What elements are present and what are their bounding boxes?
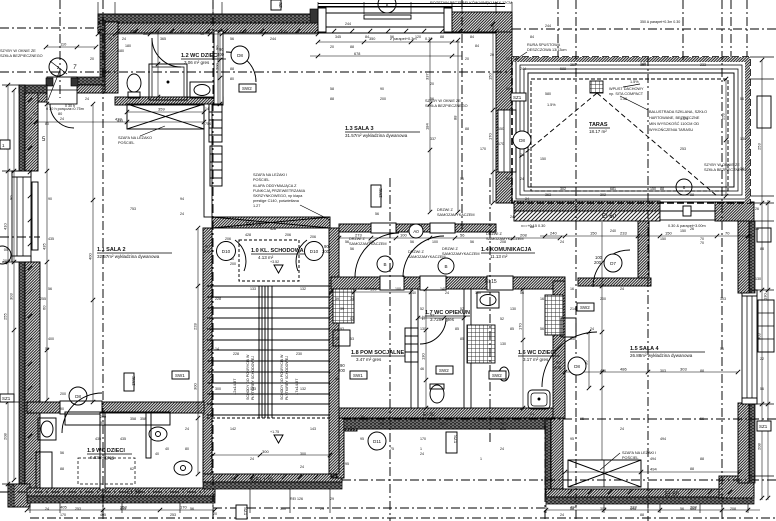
svg-text:SZYBY W OKNIE ZE: SZYBY W OKNIE ZE [425, 99, 461, 103]
svg-text:REI 20: REI 20 [246, 222, 262, 228]
svg-text:B: B [444, 264, 447, 269]
svg-text:SW2: SW2 [242, 86, 252, 91]
svg-text:56: 56 [45, 347, 49, 351]
wardrobe stair-top crossed [212, 217, 330, 228]
bath1.2 shower [149, 64, 187, 100]
svg-text:358: 358 [140, 417, 146, 421]
svg-text:300: 300 [300, 452, 306, 456]
svg-text:31.57m² wykładzina dywanowa: 31.57m² wykładzina dywanowa [345, 133, 408, 138]
door arc stair D10 right [296, 240, 307, 271]
svg-text:SZ: SZ [278, 2, 283, 8]
stairs landing dashed [239, 240, 299, 281]
svg-text:132: 132 [300, 387, 306, 391]
svg-text:94: 94 [180, 197, 184, 201]
svg-text:POŚCIEL: POŚCIEL [253, 177, 269, 182]
svg-text:88: 88 [640, 513, 644, 517]
svg-text:26: 26 [755, 207, 759, 211]
svg-text:88: 88 [700, 369, 704, 373]
terrace drain [590, 81, 603, 93]
top structure lines above window [318, 4, 505, 7]
wall bottom-left corner step [8, 484, 30, 507]
svg-text:D10: D10 [310, 249, 319, 254]
svg-text:678: 678 [354, 52, 360, 56]
svg-text:130: 130 [740, 137, 746, 141]
svg-text:REI 120: REI 120 [251, 478, 273, 484]
svg-text:88: 88 [440, 35, 444, 39]
svg-text:24: 24 [420, 452, 424, 456]
corridor door opening A [371, 223, 396, 233]
svg-text:253: 253 [170, 513, 176, 517]
svg-text:494: 494 [650, 457, 656, 461]
wall sala2 / sala3 divider [204, 104, 212, 217]
svg-text:56: 56 [375, 212, 379, 216]
svg-text:SZAFA NA LEŻAKO: SZAFA NA LEŻAKO [118, 135, 152, 140]
svg-text:1: 1 [420, 447, 422, 451]
svg-text:24: 24 [530, 412, 534, 416]
svg-text:200: 200 [230, 262, 236, 266]
svg-text:303: 303 [720, 297, 726, 301]
svg-text:np. SITA COMPACT: np. SITA COMPACT [609, 92, 644, 96]
svg-text:180: 180 [118, 49, 124, 53]
svg-text:200: 200 [203, 249, 211, 254]
svg-text:20: 20 [90, 57, 94, 61]
window west [12, 171, 31, 262]
svg-text:20: 20 [506, 57, 510, 61]
terrace floor dashed boundary [531, 79, 728, 191]
svg-text:754: 754 [205, 122, 211, 126]
svg-text:D8: D8 [519, 138, 525, 143]
svg-text:SZAFA NA LEŻAKI I: SZAFA NA LEŻAKI I [253, 172, 287, 177]
svg-text:D8: D8 [574, 364, 580, 369]
svg-text:SAMOZAMYKACZEM: SAMOZAMYKACZEM [486, 237, 524, 241]
svg-text:93: 93 [350, 317, 354, 321]
svg-text:FUNKCJĄ PRZEWIETRZANIA: FUNKCJĄ PRZEWIETRZANIA [253, 189, 306, 193]
svg-text:484: 484 [690, 507, 696, 511]
svg-text:BALUSTRADA SZKLANA, SZKŁO: BALUSTRADA SZKLANA, SZKŁO [649, 110, 707, 114]
svg-text:56: 56 [700, 417, 704, 421]
svg-text:24: 24 [180, 212, 184, 216]
svg-text:350: 350 [570, 63, 576, 67]
svg-text:140: 140 [410, 291, 416, 295]
svg-text:26.88m² wykładzina dywanowa: 26.88m² wykładzina dywanowa [630, 353, 693, 358]
svg-text:3.17 m² gres: 3.17 m² gres [523, 357, 549, 362]
bath1.2 sink [190, 82, 214, 98]
svg-text:200: 200 [600, 297, 606, 301]
svg-text:SW2: SW2 [439, 368, 449, 373]
svg-text:400: 400 [48, 337, 54, 341]
door arc corridor B [403, 236, 444, 277]
svg-text:180: 180 [125, 44, 131, 48]
svg-text:SKRZYNKOWEGO, np klapa: SKRZYNKOWEGO, np klapa [253, 194, 303, 198]
svg-text:88: 88 [60, 467, 64, 471]
svg-text:24: 24 [620, 287, 624, 291]
svg-text:SZAFA NA LEŻAKI I: SZAFA NA LEŻAKI I [622, 450, 656, 455]
svg-text:D7: D7 [610, 261, 616, 266]
svg-text:85: 85 [510, 327, 514, 331]
svg-text:6.83m² gres: 6.83m² gres [90, 455, 115, 460]
svg-text:84: 84 [470, 35, 474, 39]
svg-text:130: 130 [370, 287, 377, 292]
slope arrow 1 [623, 84, 640, 87]
svg-text:34: 34 [335, 337, 339, 341]
svg-text:1.1 SALA 2: 1.1 SALA 2 [97, 247, 126, 253]
svg-text:200: 200 [594, 260, 602, 265]
svg-text:184: 184 [425, 123, 430, 130]
svg-text:88: 88 [465, 127, 469, 131]
door arc entry [50, 104, 74, 128]
svg-text:88: 88 [700, 457, 704, 461]
svg-text:170: 170 [518, 323, 523, 330]
svg-text:88: 88 [350, 45, 354, 49]
svg-text:20: 20 [33, 112, 37, 116]
wall entry horizontal right of door [77, 77, 105, 85]
svg-text:3.72m² gres: 3.72m² gres [430, 317, 455, 322]
svg-text:4.13 m²: 4.13 m² [258, 255, 274, 260]
svg-text:350: 350 [369, 37, 375, 41]
svg-text:200: 200 [60, 392, 66, 396]
stairs center divider [259, 286, 272, 418]
door arc wc opiekun [420, 318, 446, 344]
svg-text:DRZWI Z: DRZWI Z [442, 247, 458, 251]
svg-text:x==+0.15 0.30: x==+0.15 0.30 [521, 224, 545, 228]
svg-text:24: 24 [108, 37, 112, 41]
svg-text:1.5%: 1.5% [547, 103, 556, 107]
svg-text:24: 24 [360, 415, 364, 419]
svg-text:244: 244 [520, 67, 526, 71]
svg-text:24: 24 [185, 427, 189, 431]
svg-text:24: 24 [525, 197, 529, 201]
dimension chains [96, 29, 320, 37]
svg-text:95: 95 [345, 462, 349, 466]
svg-text:206: 206 [285, 233, 291, 237]
stairs flight text right [280, 354, 299, 400]
svg-text:PŁYTKIRBY SCHODOWEJ: PŁYTKIRBY SCHODOWEJ [251, 356, 255, 400]
svg-text:56: 56 [760, 387, 764, 391]
svg-text:150: 150 [650, 187, 656, 191]
svg-text:433: 433 [117, 119, 123, 123]
svg-text:WPUST DACHOWY: WPUST DACHOWY [609, 87, 644, 91]
svg-text:56: 56 [350, 247, 354, 251]
svg-text:88: 88 [453, 115, 458, 120]
svg-text:208: 208 [3, 433, 8, 440]
wall corridor south [331, 277, 565, 289]
svg-text:DRZWI Z: DRZWI Z [486, 232, 502, 236]
wc1.9 partition2 [146, 413, 151, 458]
svg-text:100: 100 [432, 240, 438, 244]
svg-text:DRZWI Z: DRZWI Z [437, 208, 453, 212]
right edge small boxes [757, 96, 771, 242]
svg-text:200: 200 [322, 249, 330, 254]
svg-text:24: 24 [60, 117, 64, 121]
svg-text:170: 170 [488, 133, 493, 140]
svg-text:435: 435 [48, 237, 54, 241]
svg-text:70: 70 [700, 241, 704, 245]
svg-text:410: 410 [3, 223, 8, 230]
svg-text:303: 303 [757, 333, 762, 340]
terrace door opening [660, 202, 717, 220]
svg-text:240: 240 [610, 229, 616, 233]
svg-text:56: 56 [755, 227, 759, 231]
svg-text:95: 95 [580, 417, 584, 421]
svg-text:428: 428 [270, 227, 276, 231]
svg-text:681: 681 [610, 187, 616, 191]
svg-text:SCHODY DO POKRYCIA W: SCHODY DO POKRYCIA W [280, 354, 284, 400]
door arc bath1.2 to sala3 (D8) [226, 52, 256, 82]
wall corridor north [339, 224, 496, 232]
wall stairwell top REI20 [212, 217, 330, 228]
svg-text:D8: D8 [237, 53, 243, 58]
svg-text:3.47 m² gres: 3.47 m² gres [356, 357, 382, 362]
wall east sala4 corner [719, 476, 754, 498]
svg-text:130: 130 [420, 327, 426, 331]
svg-text:494: 494 [660, 437, 666, 441]
svg-text:208: 208 [757, 443, 762, 450]
svg-text:80: 80 [230, 77, 234, 81]
svg-text:753: 753 [130, 207, 136, 211]
wall vertical left of bath 1.2 [100, 20, 105, 93]
svg-text:244: 244 [270, 37, 276, 41]
wc opiekun sink [477, 292, 499, 308]
svg-text:POŚCIEL: POŚCIEL [622, 455, 638, 460]
svg-text:365: 365 [143, 32, 149, 36]
svg-text:170: 170 [60, 513, 66, 517]
stairs flight text left [232, 354, 255, 400]
wall corridor east end horizontal [578, 278, 651, 286]
svg-text:0.30 & parapet+3.00m: 0.30 & parapet+3.00m [668, 224, 706, 228]
corridor door opening B [430, 223, 455, 233]
door arc D7 sala4 [593, 250, 630, 287]
svg-text:46: 46 [420, 367, 424, 371]
svg-text:1.3 SALA 3: 1.3 SALA 3 [345, 126, 374, 132]
svg-text:337: 337 [425, 73, 430, 80]
svg-text:SZ1: SZ1 [2, 396, 11, 401]
svg-text:133: 133 [250, 287, 256, 291]
wc1.9 dashed box [78, 458, 135, 484]
wc1.9 toilet1 [149, 427, 167, 441]
svg-text:486: 486 [620, 367, 627, 372]
socjalne kitchenette [333, 289, 354, 323]
svg-text:88: 88 [330, 97, 334, 101]
level marker lower [270, 430, 283, 443]
wall east of sala4 upper [749, 221, 755, 293]
svg-text:24: 24 [300, 465, 304, 469]
svg-text:PŁYTKIRBY SCHODOWEJ: PŁYTKIRBY SCHODOWEJ [285, 356, 289, 400]
svg-text:56: 56 [520, 291, 524, 295]
wall bath1.2 east [214, 31, 223, 105]
svg-text:60: 60 [42, 305, 47, 310]
svg-text:84: 84 [475, 44, 479, 48]
svg-text:RURA SPUSTOWA: RURA SPUSTOWA [527, 43, 561, 47]
svg-text:40: 40 [155, 452, 159, 456]
door arc stair D10 left [235, 240, 246, 271]
svg-text:200: 200 [380, 97, 386, 101]
svg-text:90: 90 [335, 377, 339, 381]
svg-text:1.4 KOMUNIKACJA: 1.4 KOMUNIKACJA [481, 247, 531, 253]
svg-text:90: 90 [60, 407, 64, 411]
svg-text:303: 303 [9, 293, 14, 300]
svg-text:24: 24 [28, 117, 32, 121]
svg-text:20: 20 [430, 82, 434, 86]
wall middle partition 1 [411, 289, 418, 408]
svg-text:150: 150 [488, 73, 493, 80]
svg-text:EI 15: EI 15 [485, 279, 497, 285]
wardrobe sala2 top crossed [127, 104, 204, 129]
svg-text:85: 85 [455, 327, 459, 331]
svg-text:1.8 POM SOCJALNE: 1.8 POM SOCJALNE [351, 350, 405, 356]
svg-text:150: 150 [680, 229, 686, 233]
svg-text:56: 56 [460, 233, 465, 238]
wc1.9 sink [38, 418, 56, 440]
svg-text:300: 300 [193, 383, 198, 390]
svg-text:233: 233 [620, 231, 627, 236]
svg-text:88: 88 [230, 67, 234, 71]
svg-text:1.9 WC DZIECI: 1.9 WC DZIECI [87, 448, 125, 454]
svg-text:95: 95 [360, 437, 364, 441]
svg-text:84: 84 [530, 35, 534, 39]
svg-text:34: 34 [365, 287, 369, 291]
svg-text:D10: D10 [222, 249, 231, 254]
svg-text:14: 14 [215, 347, 219, 351]
svg-text:1.2 WC DZIECI: 1.2 WC DZIECI [181, 53, 219, 59]
svg-text:EI 30: EI 30 [423, 412, 435, 418]
svg-text:253: 253 [680, 147, 686, 151]
svg-text:EI 60: EI 60 [602, 214, 617, 220]
svg-text:17x14.67: 17x14.67 [294, 378, 299, 395]
svg-text:52: 52 [500, 317, 504, 321]
svg-text:24: 24 [500, 447, 504, 451]
svg-text:100: 100 [395, 287, 401, 291]
svg-text:56: 56 [540, 327, 544, 331]
svg-text:40: 40 [200, 32, 204, 36]
wall stairwell east [329, 228, 339, 474]
circle callouts [0, 0, 692, 450]
svg-text:40: 40 [165, 447, 169, 451]
svg-text:24: 24 [122, 37, 126, 41]
svg-text:80: 80 [58, 112, 62, 116]
svg-text:150: 150 [665, 231, 672, 236]
svg-text:6: 6 [386, 3, 389, 8]
wall bottom of sala4 wing [546, 489, 754, 497]
svg-text:88: 88 [570, 507, 574, 511]
wardrobe sala4 crossed [568, 460, 641, 487]
svg-text:POŚCIEL: POŚCIEL [118, 140, 134, 145]
top right corner diag hatch [452, 12, 512, 32]
svg-text:56: 56 [410, 240, 414, 244]
wc1.6 toilet [499, 367, 509, 381]
svg-text:1: 1 [480, 457, 482, 461]
svg-text:130: 130 [421, 353, 426, 360]
svg-text:93: 93 [340, 327, 344, 331]
svg-text:206: 206 [310, 235, 316, 239]
svg-text:130: 130 [500, 342, 506, 346]
EI REI labels [127, 214, 680, 498]
svg-text:SW1: SW1 [175, 373, 185, 378]
svg-text:494: 494 [650, 467, 657, 472]
svg-text:24: 24 [510, 215, 514, 219]
svg-text:150: 150 [540, 157, 546, 161]
svg-text:05: 05 [4, 247, 9, 252]
svg-text:0 30 h poręcza=0.75m: 0 30 h poręcza=0.75m [46, 107, 84, 111]
terrace slope diagonal 1 [519, 93, 597, 158]
svg-text:SZ1: SZ1 [243, 507, 248, 516]
svg-text:8: 8 [683, 185, 686, 190]
svg-text:200: 200 [217, 52, 225, 57]
svg-text:142: 142 [230, 427, 236, 431]
wall east of sala4 lower [749, 403, 755, 483]
svg-text:365: 365 [160, 37, 166, 41]
svg-text:62: 62 [130, 467, 134, 471]
shaft hatched between wc [467, 325, 495, 363]
svg-text:400: 400 [88, 253, 93, 260]
svg-text:SAMOZAMYKACZEM: SAMOZAMYKACZEM [442, 252, 480, 256]
svg-text:SZYBY W OKNIE ZE: SZYBY W OKNIE ZE [704, 163, 740, 167]
svg-text:20: 20 [213, 512, 217, 516]
svg-text:SW2: SW2 [131, 376, 136, 386]
svg-text:12x14.67: 12x14.67 [232, 378, 237, 395]
svg-text:233: 233 [700, 63, 706, 67]
svg-text:18.17 m²: 18.17 m² [589, 129, 607, 134]
svg-text:56: 56 [60, 451, 64, 455]
svg-text:SAMOZAMYKACZEM: SAMOZAMYKACZEM [349, 242, 387, 246]
svg-text:24: 24 [250, 457, 254, 461]
svg-text:244: 244 [345, 22, 351, 26]
svg-text:150: 150 [640, 63, 646, 67]
svg-text:1.0 KL. SCHODOWA: 1.0 KL. SCHODOWA [251, 248, 304, 254]
svg-text:39: 39 [335, 297, 339, 301]
svg-text:253: 253 [721, 113, 726, 120]
svg-text:53: 53 [350, 337, 354, 341]
svg-text:1.6 WC DZIECI: 1.6 WC DZIECI [518, 350, 556, 356]
svg-text:300: 300 [500, 422, 506, 426]
svg-text:753: 753 [180, 487, 186, 491]
svg-text:24: 24 [350, 427, 354, 431]
svg-text:130: 130 [763, 293, 768, 300]
svg-text:14: 14 [205, 107, 209, 111]
wall south of middle rooms dark [344, 418, 555, 429]
svg-text:SW2: SW2 [492, 373, 502, 378]
svg-text:244: 244 [545, 24, 551, 28]
svg-text:75: 75 [390, 447, 394, 451]
wall top main north: hatch inner band [98, 23, 512, 33]
svg-text:TARAS: TARAS [589, 122, 608, 128]
svg-text:85: 85 [460, 337, 464, 341]
wc1.6 sink rounded [528, 390, 550, 409]
svg-text:20: 20 [28, 137, 32, 141]
svg-text:24: 24 [620, 427, 624, 431]
svg-text:56: 56 [460, 177, 464, 181]
svg-text:303: 303 [660, 369, 666, 373]
svg-text:11.13 m²: 11.13 m² [490, 254, 508, 259]
svg-text:170: 170 [420, 437, 426, 441]
terrace slope diagonal 2 [597, 93, 717, 196]
svg-text:3.06 m² gres: 3.06 m² gres [184, 60, 210, 65]
svg-text:DRZWI Z: DRZWI Z [349, 237, 365, 241]
svg-text:132: 132 [300, 287, 306, 291]
svg-text:D11: D11 [373, 439, 382, 444]
svg-text:300: 300 [215, 387, 221, 391]
radiator under west window [32, 182, 38, 250]
door arc corridor A [355, 233, 399, 277]
svg-text:56: 56 [740, 97, 744, 101]
svg-text:88: 88 [690, 467, 694, 471]
wall bottom left south [27, 488, 215, 496]
wc1.9 door gap [60, 401, 102, 414]
svg-text:100: 100 [400, 233, 407, 238]
svg-text:SZ1: SZ1 [513, 95, 522, 100]
wall corridor east end vertical [638, 221, 649, 281]
svg-text:SZ1: SZ1 [453, 435, 458, 444]
svg-text:358: 358 [130, 417, 136, 421]
